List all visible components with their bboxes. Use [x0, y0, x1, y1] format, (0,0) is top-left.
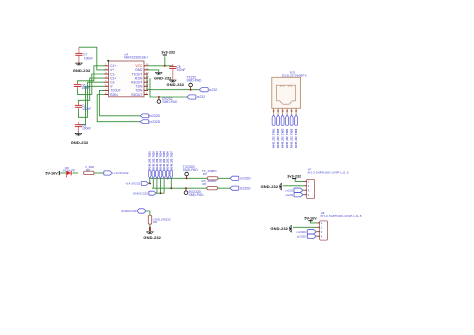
svg-text:100nF: 100nF	[177, 68, 186, 72]
svg-text:GNDC/232: GNDC/232	[133, 191, 148, 195]
svg-text:RJ45_232_TXD2: RJ45_232_TXD2	[277, 128, 280, 148]
svg-text:5V-16V: 5V-16V	[45, 171, 58, 175]
svg-text:GNDC/232: GNDC/232	[121, 209, 136, 213]
svg-text:RJ45_232_TXD5: RJ45_232_TXD5	[163, 151, 166, 170]
svg-text:XH-2.54PH180-1X4P-L11.5: XH-2.54PH180-1X4P-L11.5	[307, 171, 349, 175]
svg-text:GND-232: GND-232	[71, 140, 89, 145]
svg-text:tx232: tx232	[286, 193, 294, 197]
svg-text:RJ45_232_TXD6: RJ45_232_TXD6	[167, 151, 170, 170]
svg-text:GND-232: GND-232	[73, 68, 91, 73]
svg-text:100nF: 100nF	[82, 126, 91, 130]
svg-text:XH-2.54PH180-1X4P-L11.5: XH-2.54PH180-1X4P-L11.5	[320, 214, 362, 218]
svg-text:tx232D: tx232D	[240, 187, 251, 191]
svg-text:RJ45_232_TXD4: RJ45_232_TXD4	[160, 151, 163, 170]
svg-text:DS1133-S60BPX: DS1133-S60BPX	[282, 74, 307, 78]
svg-text:100nF: 100nF	[84, 56, 93, 60]
svg-text:R0: R0	[86, 168, 90, 172]
svg-text:RJ45_232_TXD1: RJ45_232_TXD1	[273, 128, 276, 148]
svg-text:tx232D: tx232D	[149, 114, 160, 118]
svg-text:3v3-232: 3v3-232	[287, 174, 301, 178]
svg-text:SMD-PAD: SMD-PAD	[189, 193, 205, 197]
svg-text:SS1A-TP: SS1A-TP	[63, 169, 75, 173]
svg-text:+14.5V232: +14.5V232	[125, 182, 140, 186]
svg-text:R0: R0	[203, 172, 207, 176]
svg-text:GND-232: GND-232	[143, 235, 161, 240]
svg-text:RJ45_232_TXD7: RJ45_232_TXD7	[170, 151, 173, 170]
svg-text:R0: R0	[153, 220, 157, 224]
svg-text:rx232D: rx232D	[149, 120, 160, 124]
svg-text:RJ45_232_TXD3: RJ45_232_TXD3	[156, 151, 159, 170]
svg-text:rx232: rx232	[285, 188, 293, 192]
svg-text:tx232D: tx232D	[297, 234, 308, 238]
svg-text:SMD-PAD: SMD-PAD	[183, 168, 199, 172]
svg-text:GND-232: GND-232	[270, 226, 288, 231]
svg-text:SMD-PAD: SMD-PAD	[162, 100, 178, 104]
svg-text:rx232D: rx232D	[240, 177, 251, 181]
svg-text:RJ45_232_TXD3: RJ45_232_TXD3	[282, 128, 285, 148]
svg-text:R2OUT: R2OUT	[131, 93, 142, 97]
svg-text:100nF: 100nF	[81, 86, 90, 90]
svg-text:GND-232: GND-232	[166, 82, 184, 87]
svg-text:GND-232: GND-232	[261, 184, 279, 189]
svg-text:RJ45_232_TXD6: RJ45_232_TXD6	[295, 128, 298, 148]
svg-text:rx232: rx232	[197, 95, 206, 99]
svg-text:RJ45_232_TXD1: RJ45_232_TXD1	[149, 151, 152, 170]
svg-text:tx232: tx232	[209, 88, 217, 92]
svg-text:RJ45_232_TXD2: RJ45_232_TXD2	[152, 151, 155, 170]
svg-text:RJ45_232_TXD4: RJ45_232_TXD4	[286, 128, 289, 148]
svg-text:100nF: 100nF	[82, 107, 91, 111]
svg-text:RJ45_232_TXD5: RJ45_232_TXD5	[291, 128, 294, 148]
svg-text:rx232D: rx232D	[297, 230, 308, 234]
svg-text:MAX3232ESE+: MAX3232ESE+	[124, 56, 148, 60]
svg-text:R2IN: R2IN	[110, 93, 118, 97]
svg-text:3v3-232: 3v3-232	[161, 50, 175, 54]
svg-text:SMD-PAD: SMD-PAD	[186, 79, 202, 83]
svg-text:+14.5V232: +14.5V232	[113, 171, 128, 175]
svg-text:R0: R0	[202, 182, 206, 186]
svg-text:5V-16V: 5V-16V	[304, 217, 317, 221]
svg-text:GND-232: GND-232	[154, 75, 172, 80]
